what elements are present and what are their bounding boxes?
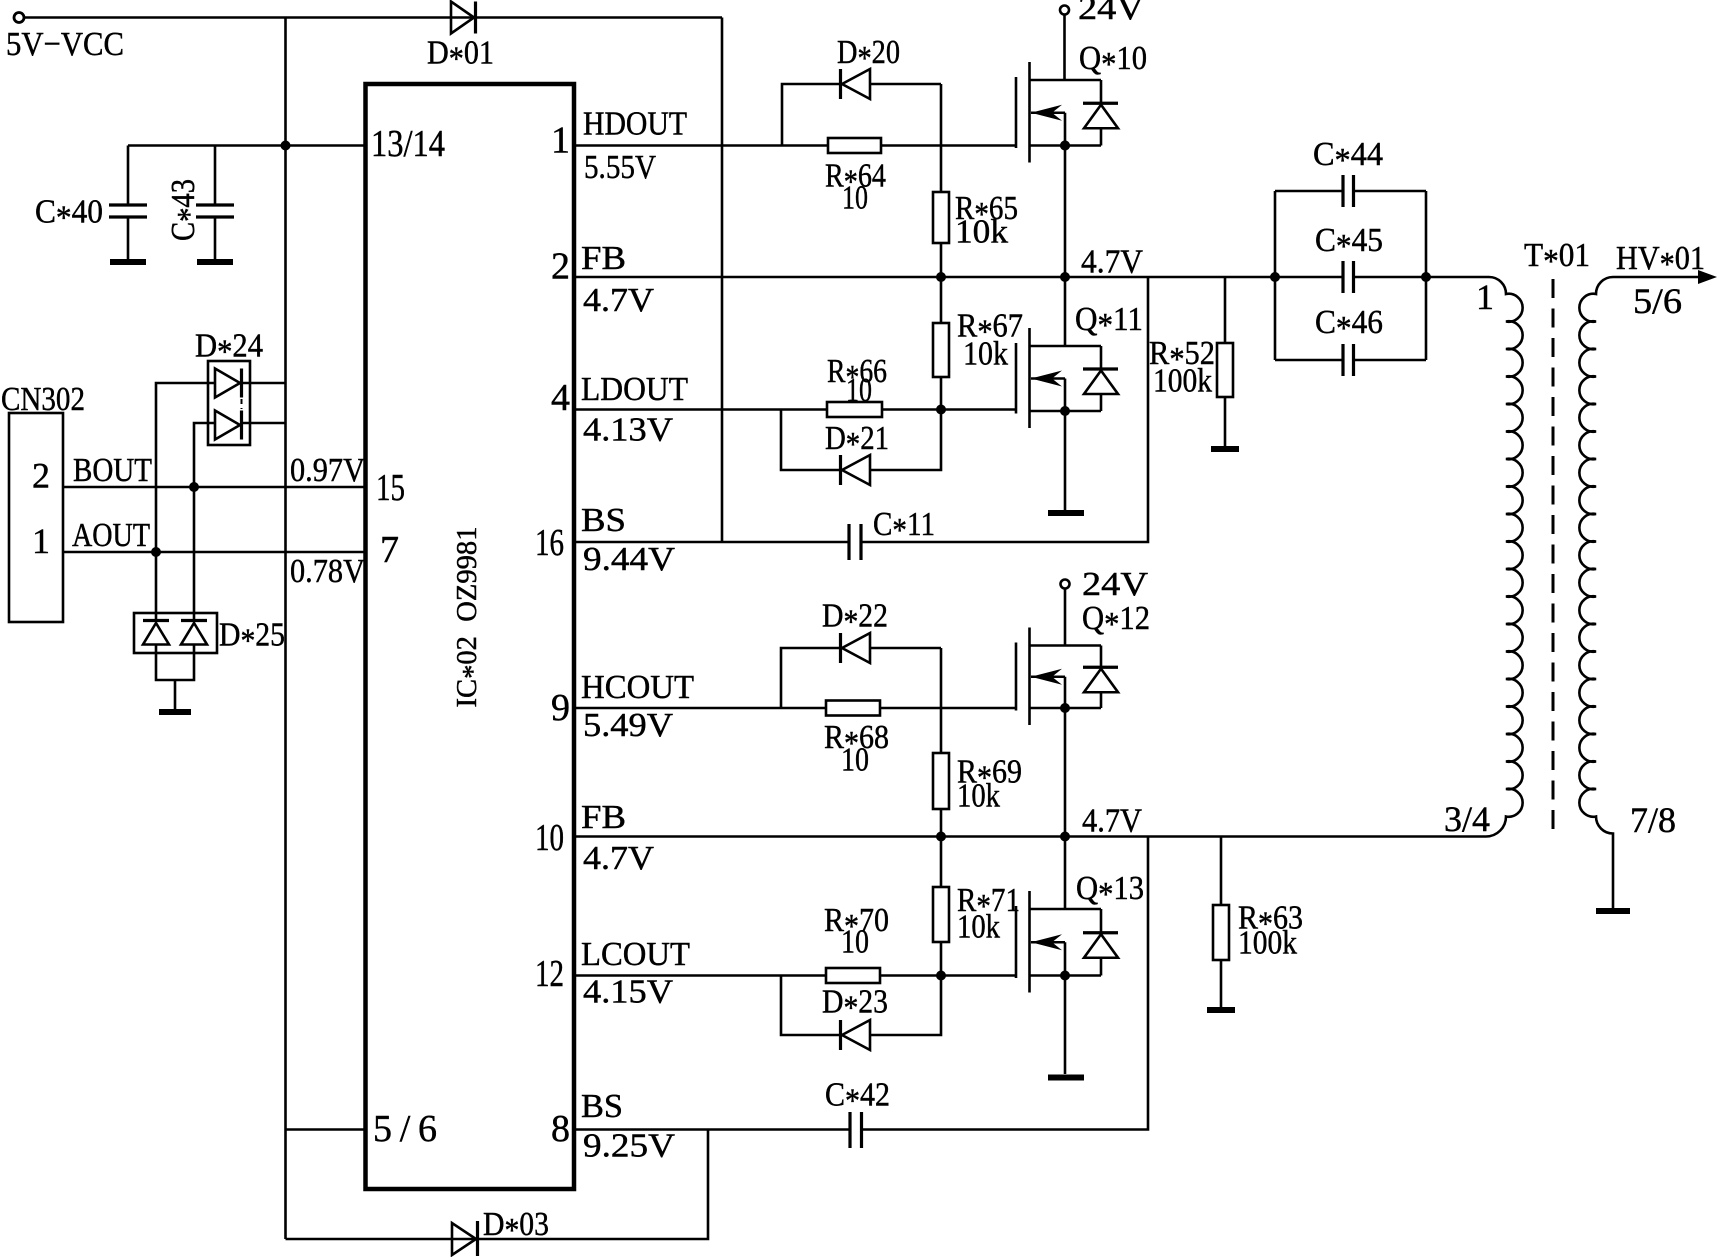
junction R*69/FB2 [936,832,946,842]
svg-text:5V−VCC: 5V−VCC [6,26,124,63]
resistor R*70 [826,968,880,983]
wire BOUT down to D*25 right [193,487,196,621]
svg-text:10k: 10k [957,778,1000,815]
svg-text:100k: 100k [1153,363,1212,400]
svg-text:Q*13: Q*13 [1076,870,1144,913]
svg-text:2: 2 [32,456,50,496]
wire Q*11 source to ground [1064,411,1067,510]
wire pin 13/14 to VCC rail and caps [128,144,366,147]
junction BOUT/D*24 [189,482,199,492]
svg-text:16: 16 [535,522,564,564]
label IC*02 OZ9981 (rotated) [451,527,489,708]
resistor R*64 [828,138,881,153]
diode D*03 [452,1221,478,1256]
diode D*22 [839,633,842,663]
svg-text:Q*11: Q*11 [1075,301,1143,344]
diode D*24 (dual, common cathode) [208,361,250,445]
svg-text:D*21: D*21 [825,420,889,463]
24V supply terminal for Q*12 [1061,580,1070,646]
wire D*25 anodes common to ground [156,645,194,681]
svg-text:HDOUT: HDOUT [583,106,687,143]
wire D*24 lower cathode to rail [242,422,286,425]
svg-text:T*01: T*01 [1524,237,1590,280]
wire AOUT to IC pin7 [63,551,366,554]
svg-text:Q*12: Q*12 [1082,600,1150,643]
svg-text:10k: 10k [963,336,1008,373]
svg-text:CN302: CN302 [1,381,85,418]
svg-text:C*11: C*11 [873,506,935,549]
junction Q*10 source [1060,141,1070,151]
diode D*20 [839,69,842,99]
svg-text:5/6: 5/6 [373,1108,437,1150]
ground under C*43 [197,259,233,265]
wire Q*13 drain [1064,837,1067,910]
svg-text:8: 8 [551,1108,570,1150]
svg-text:AOUT: AOUT [72,517,150,554]
capacitor C*44 [1343,175,1354,207]
svg-text:D*22: D*22 [822,598,888,641]
junction cap block right [1421,272,1431,282]
svg-text:Q*10: Q*10 [1079,40,1147,83]
svg-text:HCOUT: HCOUT [581,669,694,706]
wire Q*10 source to 4.7V node [1064,146,1067,278]
connector CN302 [9,413,63,622]
wire D*21 bypass loop [781,410,841,471]
wire D*22 bypass loop [781,648,841,708]
capacitor C*46 [1343,344,1354,376]
svg-text:12: 12 [535,953,564,995]
wire D*24 upper anode from AOUT [156,383,215,552]
svg-text:1: 1 [551,120,570,162]
svg-text:LDOUT: LDOUT [581,371,688,408]
svg-text:C*40: C*40 [35,194,103,237]
diode D*01 [451,2,476,34]
5V-VCC input terminal [14,13,24,23]
wire HV output with arrow [1613,276,1701,279]
svg-text:3/4: 3/4 [1444,799,1490,839]
svg-text:1: 1 [32,521,50,561]
ground under Q*11 [1048,510,1084,516]
wire R*65 branch (D*20 loop down to FB) [940,84,943,277]
op-amp/controller IC*02 OZ9981 body [366,84,575,1189]
wire FB pin2 node (4.7V) [574,276,1343,279]
ground secondary return [1596,908,1630,914]
junction cap block left [1270,272,1280,282]
diode D*23 [839,1020,842,1050]
svg-text:D*24: D*24 [195,328,263,371]
resistor R*65 [933,192,949,243]
junction R*65/FB [936,272,946,282]
wire Q*12 source to FB2 node [1064,708,1067,837]
svg-text:10: 10 [841,742,869,779]
svg-text:C*45: C*45 [1315,222,1383,265]
svg-text:0.97V: 0.97V [290,452,365,489]
resistor R*63 branch [1220,837,1223,1008]
wire LCOUT pin12 to Q*13 gate [574,974,1016,977]
ground under C*40 [110,259,146,265]
svg-text:10: 10 [846,372,872,409]
svg-text:BOUT: BOUT [73,452,152,489]
svg-text:7: 7 [380,529,399,571]
svg-text:0.78V: 0.78V [290,553,365,590]
capacitor C*11 [849,524,861,560]
svg-text:7/8: 7/8 [1630,800,1676,840]
wire Q*13 source to ground [1064,976,1067,1075]
diode D*25 (dual, to ground) [134,613,217,653]
svg-text:BS: BS [581,1088,623,1125]
svg-text:4.7V: 4.7V [583,840,654,877]
resistor R*67 branch [940,277,943,410]
svg-text:9: 9 [551,687,570,729]
junction 4.7V node [1060,272,1070,282]
junction node VCC/pin13-14 [281,141,291,151]
wire BOUT to IC pin15 [63,486,366,489]
svg-text:10: 10 [535,817,564,859]
wire FB pin10 node (4.7V) to transformer [574,835,1486,838]
svg-text:HV*01: HV*01 [1616,240,1705,283]
transistor Q*12 MOSFET high side 2 [1016,628,1118,726]
svg-text:4.15V: 4.15V [583,974,673,1011]
svg-text:4.13V: 4.13V [583,412,673,449]
capacitor block C*44 C*45 C*46 [1274,191,1277,360]
wire HDOUT pin1 to Q*10 gate [574,144,1016,147]
svg-text:10k: 10k [955,214,1008,251]
svg-text:C*46: C*46 [1315,304,1383,347]
wire D*24 upper cathode to rail [242,382,286,385]
svg-text:9.25V: 9.25V [583,1128,675,1165]
wire 5V-VCC top rail [24,16,722,19]
transistor Q*11 MOSFET low side 1 [1016,328,1118,428]
svg-text:5.55V: 5.55V [584,149,656,186]
svg-text:10k: 10k [957,909,1000,946]
wire bottom loop with D*03 [286,1130,709,1240]
svg-text:D*23: D*23 [822,984,888,1027]
svg-text:D*01: D*01 [427,35,494,78]
svg-text:D*20: D*20 [837,34,900,77]
wire D*23 bypass loop [781,976,841,1036]
wire 5/6 pin to rail [286,1128,366,1131]
wire D*20 bypass loop [782,84,841,146]
svg-text:5/6: 5/6 [1633,281,1682,321]
svg-text:24V: 24V [1082,566,1148,603]
svg-text:D*03: D*03 [483,1206,549,1249]
svg-text:C*42: C*42 [825,1077,890,1120]
resistor R*66 [827,402,882,417]
wire HCOUT pin9 to Q*12 gate [574,707,1016,710]
ground under Q*13 [1048,1075,1084,1081]
24V supply terminal for Q*10 [1060,6,1069,81]
transformer core [1552,279,1555,837]
wire BS pin8 to bootstrap node [574,1128,850,1131]
resistor R*68 [826,701,880,716]
svg-text:C*43: C*43 [165,179,208,241]
svg-text:100k: 100k [1238,925,1297,962]
svg-text:2: 2 [551,246,570,288]
ground under R*63 [1207,1007,1235,1013]
junction R*71/LCOUT [936,971,946,981]
ground under D*25 [159,709,191,715]
transistor Q*13 MOSFET low side 2 [1016,891,1118,993]
svg-text:FB: FB [581,240,626,277]
wire Q*11 drain [1064,277,1067,346]
svg-text:5.49V: 5.49V [583,707,673,744]
transistor Q*10 MOSFET high side 1 [1016,62,1118,163]
svg-text:10: 10 [841,924,869,961]
svg-text:9.44V: 9.44V [583,541,675,578]
svg-text:13/14: 13/14 [371,123,445,165]
wire vertical 5V rail [284,18,287,1240]
svg-text:4: 4 [551,377,570,419]
wire R*69 branch [940,648,943,837]
svg-text:4.7V: 4.7V [1081,244,1143,281]
svg-text:C*44: C*44 [1313,136,1383,179]
wire BS pin16 to bootstrap node [574,541,849,544]
svg-text:BS: BS [581,502,626,539]
capacitor C*43 [196,146,234,260]
svg-text:24V: 24V [1078,0,1144,27]
resistor R*52 branch [1224,277,1227,446]
svg-text:D*25: D*25 [219,617,285,660]
capacitor C*45 [1343,261,1354,293]
label C*43 (rotated) [165,179,208,241]
capacitor C*40 [109,146,147,260]
wire AOUT down to D*25 left [155,552,158,621]
svg-text:FB: FB [581,799,626,836]
junction R*67/LDOUT [936,405,946,415]
transformer T*01 secondary winding (pins 5/6, 7/8) [1579,277,1613,908]
resistor R*71 branch [940,837,943,976]
ground under R*52 [1211,446,1239,452]
junction FB2 node 4.7V [1060,832,1070,842]
svg-text:4.7V: 4.7V [1082,803,1142,840]
wire D*01 cathode down to BS pin16 [721,18,724,543]
svg-text:1: 1 [1476,277,1494,317]
resistor R*69 [933,753,949,809]
junction AOUT/D*24 [151,547,161,557]
svg-text:15: 15 [376,467,405,509]
diode D*21 [839,455,842,485]
svg-text:10: 10 [842,180,868,217]
svg-text:4.7V: 4.7V [583,282,654,319]
wire LDOUT pin4 to Q*11 gate [574,408,1016,411]
transformer T*01 primary winding (pins 1, 3/4) [1486,277,1523,837]
capacitor C*42 [850,1112,862,1148]
svg-text:LCOUT: LCOUT [581,936,690,973]
wire D*24 lower anode from BOUT [194,423,215,487]
